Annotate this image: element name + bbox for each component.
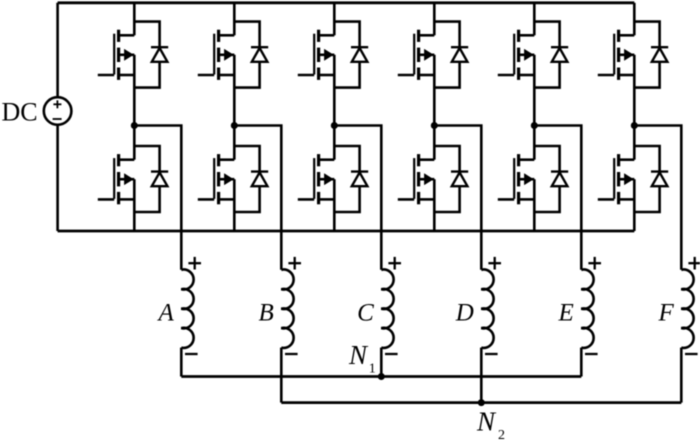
svg-text:N: N — [348, 340, 369, 370]
svg-text:D: D — [455, 300, 474, 327]
wire: node F to winding F — [634, 126, 681, 270]
diode D4H (body diode) — [451, 47, 468, 62]
transistor Q4L (phase D low-side MOSFET) — [398, 154, 435, 204]
wire: node D to winding D — [434, 126, 481, 270]
wire: top rail to Q2H drain — [233, 3, 236, 36]
svg-text:1: 1 — [369, 361, 376, 376]
wire: Q5L drain to D5L cathode — [534, 146, 559, 172]
diode D3L (body diode) — [351, 172, 368, 187]
svg-text:A: A — [157, 300, 175, 327]
wire: Q1L drain to D1L cathode — [134, 146, 159, 172]
minus polarity mark (winding D) — [485, 353, 498, 355]
wire: D1H anode to Q1H source — [134, 62, 159, 88]
minus polarity mark (winding B) — [285, 353, 298, 355]
diode D3H (body diode) — [351, 47, 368, 62]
wire: top rail to Q3H drain — [333, 3, 336, 36]
wire: Q4L source to bottom rail — [433, 179, 436, 231]
plus polarity mark (winding F) — [688, 257, 700, 270]
wire: Q3L drain to D3L cathode — [334, 146, 359, 172]
plus polarity mark (winding B) — [288, 257, 301, 270]
wire: positive DC bus (top rail) — [58, 1, 635, 4]
wire: Q2H source to node B — [233, 55, 236, 126]
diode D2L (body diode) — [251, 172, 268, 187]
wire: top rail to Q5H drain — [533, 3, 536, 36]
wire: Q6L source to bottom rail — [633, 179, 636, 231]
inductor winding E — [581, 270, 593, 348]
wire: D2L anode to Q2L source — [234, 186, 259, 212]
wire: negative DC bus (bottom rail) — [58, 230, 635, 233]
wire: DC source negative lead — [56, 125, 59, 231]
diode D4L (body diode) — [451, 172, 468, 187]
wire: node F to Q6L drain — [633, 126, 636, 160]
plus polarity mark (winding E) — [588, 257, 601, 270]
diode D1H (body diode) — [151, 47, 168, 62]
wire: Q6H drain to D6H cathode — [634, 22, 659, 48]
wire: Q2H drain to D2H cathode — [234, 22, 259, 48]
wire: node C to Q3L drain — [333, 126, 336, 160]
wire: D6H anode to Q6H source — [634, 62, 659, 88]
diode D6L (body diode) — [651, 172, 668, 187]
wire: winding F to neutral N2 — [680, 348, 683, 403]
wire: winding D to neutral N2 — [480, 348, 483, 403]
diode D6H (body diode) — [651, 47, 668, 62]
wire: D5L anode to Q5L source — [534, 186, 559, 212]
wire: neutral bus N2 (windings B D F) — [281, 401, 681, 404]
plus polarity mark (winding C) — [388, 257, 401, 270]
wire: Q1H source to node A — [133, 55, 136, 126]
node N1 junction — [378, 373, 385, 380]
voltage source DC — [44, 97, 72, 125]
wire: winding E to neutral N1 — [580, 348, 583, 377]
wire: DC source positive lead — [56, 3, 59, 97]
wire: top rail to Q1H drain — [133, 3, 136, 36]
svg-text:N: N — [476, 406, 497, 436]
minus polarity mark (winding C) — [385, 353, 398, 355]
wire: winding C to neutral N1 — [380, 348, 383, 377]
inductor winding F — [681, 270, 693, 348]
wire: Q2L drain to D2L cathode — [234, 146, 259, 172]
wire: winding A to neutral N1 — [180, 348, 183, 377]
wire: node B to winding B — [234, 126, 281, 270]
wire: D1L anode to Q1L source — [134, 186, 159, 212]
transistor Q1H (phase A high-side MOSFET) — [98, 30, 135, 80]
svg-text:E: E — [558, 300, 574, 327]
wire: Q5L source to bottom rail — [533, 179, 536, 231]
wire: D2H anode to Q2H source — [234, 62, 259, 88]
wire: top rail to Q4H drain — [433, 3, 436, 36]
transistor Q4H (phase D high-side MOSFET) — [398, 30, 435, 80]
transistor Q6L (phase F low-side MOSFET) — [598, 154, 635, 204]
inductor winding A — [181, 270, 193, 348]
transistor Q3H (phase C high-side MOSFET) — [298, 30, 335, 80]
wire: neutral bus N1 (windings A C E) — [181, 375, 581, 378]
inductor winding C — [381, 270, 393, 348]
transistor Q1L (phase A low-side MOSFET) — [98, 154, 135, 204]
wire: D4H anode to Q4H source — [434, 62, 459, 88]
wire: Q1H drain to D1H cathode — [134, 22, 159, 48]
wire: D4L anode to Q4L source — [434, 186, 459, 212]
plus polarity mark (winding D) — [488, 257, 501, 270]
wire: node A to Q1L drain — [133, 126, 136, 160]
wire: D3H anode to Q3H source — [334, 62, 359, 88]
wire: node C to winding C — [334, 126, 381, 270]
transistor Q3L (phase C low-side MOSFET) — [298, 154, 335, 204]
wire: node D to Q4L drain — [433, 126, 436, 160]
wire: Q5H source to node E — [533, 55, 536, 126]
wire: Q6H source to node F — [633, 55, 636, 126]
wire: Q3H drain to D3H cathode — [334, 22, 359, 48]
svg-text:C: C — [357, 300, 374, 327]
wire: Q3H source to node C — [333, 55, 336, 126]
wire: Q5H drain to D5H cathode — [534, 22, 559, 48]
wire: top rail to Q6H drain — [633, 3, 636, 36]
inductor winding B — [281, 270, 293, 348]
wire: Q2L source to bottom rail — [233, 179, 236, 231]
svg-text:B: B — [259, 300, 274, 327]
wire: Q1L source to bottom rail — [133, 179, 136, 231]
transistor Q6H (phase F high-side MOSFET) — [598, 30, 635, 80]
node A (phase A midpoint junction) — [131, 122, 138, 129]
diode D5H (body diode) — [551, 47, 568, 62]
wire: winding B to neutral N2 — [280, 348, 283, 403]
plus polarity mark (winding A) — [188, 257, 201, 270]
svg-text:DC: DC — [2, 97, 38, 126]
minus polarity mark (winding E) — [585, 353, 598, 355]
wire: node A to winding A — [134, 126, 181, 270]
wire: Q4L drain to D4L cathode — [434, 146, 459, 172]
transistor Q2H (phase B high-side MOSFET) — [198, 30, 235, 80]
wire: node E to Q5L drain — [533, 126, 536, 160]
wire: Q6L drain to D6L cathode — [634, 146, 659, 172]
node N2 junction — [478, 399, 485, 406]
wire: Q3L source to bottom rail — [333, 179, 336, 231]
minus polarity mark (winding F) — [685, 353, 698, 355]
node C (phase C midpoint junction) — [331, 122, 338, 129]
diode D1L (body diode) — [151, 172, 168, 187]
transistor Q2L (phase B low-side MOSFET) — [198, 154, 235, 204]
svg-text:F: F — [658, 300, 675, 327]
transistor Q5H (phase E high-side MOSFET) — [498, 30, 535, 80]
wire: node E to winding E — [534, 126, 581, 270]
node E (phase E midpoint junction) — [531, 122, 538, 129]
transistor Q5L (phase E low-side MOSFET) — [498, 154, 535, 204]
svg-text:2: 2 — [498, 428, 505, 440]
wire: Q4H source to node D — [433, 55, 436, 126]
wire: Q4H drain to D4H cathode — [434, 22, 459, 48]
diode D5L (body diode) — [551, 172, 568, 187]
node B (phase B midpoint junction) — [231, 122, 238, 129]
minus polarity mark (winding A) — [185, 353, 198, 355]
inductor winding D — [481, 270, 493, 348]
wire: D3L anode to Q3L source — [334, 186, 359, 212]
wire: D5H anode to Q5H source — [534, 62, 559, 88]
wire: D6L anode to Q6L source — [634, 186, 659, 212]
node F (phase F midpoint junction) — [631, 122, 638, 129]
wire: node B to Q2L drain — [233, 126, 236, 160]
node D (phase D midpoint junction) — [431, 122, 438, 129]
diode D2H (body diode) — [251, 47, 268, 62]
